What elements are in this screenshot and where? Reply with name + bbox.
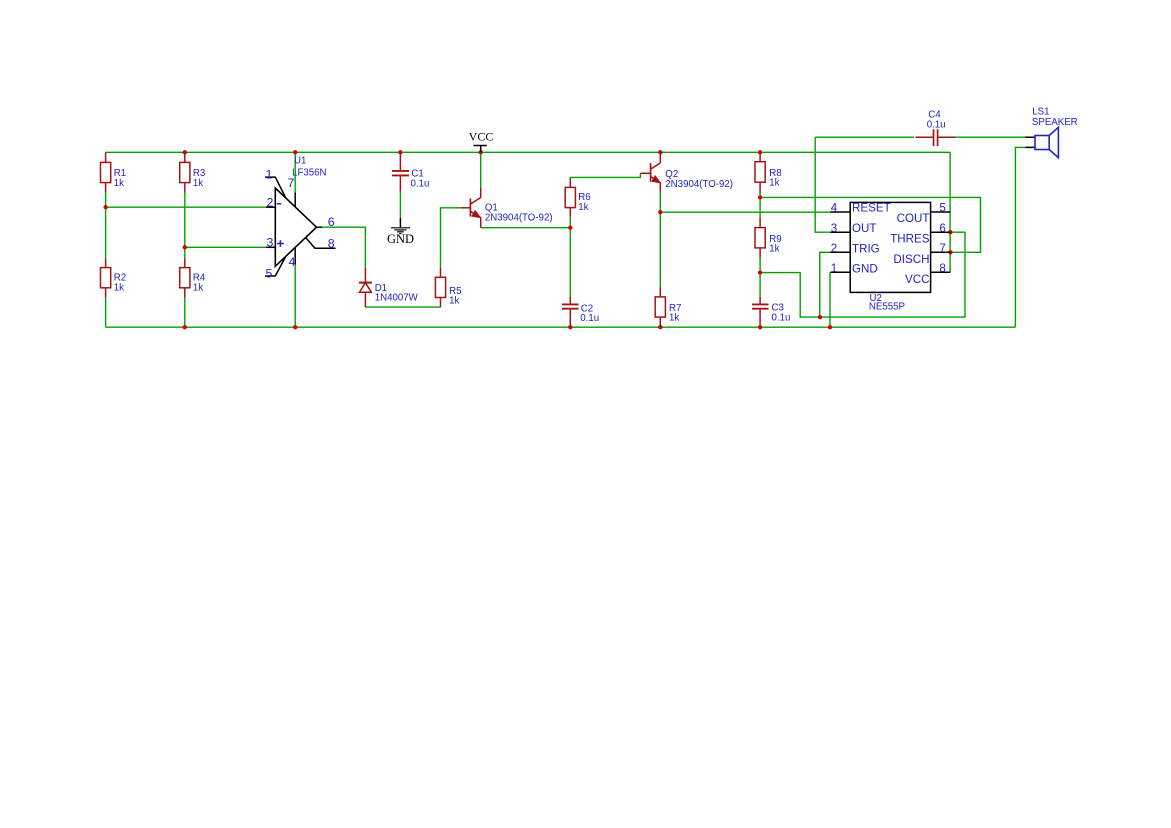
capacitor C2 <box>562 296 579 327</box>
op-amp U1 pin 1 <box>265 177 286 198</box>
U2 pin 8 stub <box>931 271 951 273</box>
node pin6 <box>948 230 952 234</box>
U2 pin 6 stub <box>931 231 951 233</box>
label R3 <box>193 168 205 189</box>
wire D1 to R5 <box>365 306 440 308</box>
node rail C2 <box>568 325 572 329</box>
U2 pin 5 stub <box>931 211 951 213</box>
resistor R9 <box>755 218 765 258</box>
svg-text:8: 8 <box>939 262 945 275</box>
node rail U2 GND <box>828 325 832 329</box>
op-amp minus sign <box>277 203 282 205</box>
wire rail to U2 pins 5-8 <box>949 152 951 272</box>
node rail Q2 collector <box>658 150 662 154</box>
op-amp U1 pin 6 stub <box>317 226 323 228</box>
svg-text:VCC: VCC <box>469 130 494 144</box>
wire ground bottom rail <box>106 326 1016 328</box>
svg-text:1: 1 <box>831 262 837 275</box>
wire U1 pin 7 to rail <box>294 152 296 192</box>
svg-text:2N3904(TO-92): 2N3904(TO-92) <box>665 179 733 190</box>
wire C4 to speaker <box>955 136 1025 138</box>
diode D1 <box>359 268 372 307</box>
wire R3 to R4 <box>184 193 186 259</box>
svg-text:0.1u: 0.1u <box>411 178 430 189</box>
resistor R2 <box>101 258 111 298</box>
wire U2 THRES pin 6 to R9/C3 node <box>760 232 965 317</box>
svg-text:1k: 1k <box>193 282 203 293</box>
svg-text:1k: 1k <box>114 282 124 293</box>
svg-text:LS1: LS1 <box>1032 106 1049 117</box>
label D1 <box>375 283 419 304</box>
svg-text:6: 6 <box>939 222 945 235</box>
VCC power symbol <box>474 146 487 153</box>
op-amp U1 pin 4 <box>294 248 296 265</box>
wire C4 to U2 OUT pin 3 <box>815 137 830 232</box>
label R8 <box>769 168 781 188</box>
svg-text:NE555P: NE555P <box>869 301 905 312</box>
svg-text:SPEAKER: SPEAKER <box>1032 117 1078 128</box>
wire U1 pin 6 to D1 <box>321 227 365 268</box>
wire C4 left lead <box>815 136 914 138</box>
label R6 <box>578 192 590 213</box>
svg-text:COUT: COUT <box>897 212 930 225</box>
resistor R4 <box>180 258 190 298</box>
label U1 <box>292 156 326 179</box>
wire U2 GND pin 1 to rail <box>829 272 831 327</box>
node rail R3 <box>183 150 187 154</box>
svg-text:LF356N: LF356N <box>292 167 326 178</box>
node Q2 emitter <box>658 210 662 214</box>
op-amp U1 pin 2 stub <box>266 206 275 208</box>
capacitor C1 <box>392 152 409 192</box>
capacitor C3 <box>752 296 769 327</box>
svg-text:4: 4 <box>831 202 838 215</box>
wire Q2 emitter to R7 <box>659 192 661 288</box>
wire R8 bottom <box>759 193 761 197</box>
svg-text:1N4007W: 1N4007W <box>375 293 419 304</box>
wire U1 pin 4 to rail <box>294 265 296 328</box>
svg-text:7: 7 <box>288 176 295 190</box>
node rail R8 <box>758 150 762 154</box>
node R9/C3 <box>758 270 762 274</box>
wire speaker bottom riser <box>1015 147 1025 327</box>
svg-text:GND: GND <box>852 263 878 276</box>
wire U2 TRIG pin 2 to THRES net <box>820 252 831 317</box>
label C2 <box>580 304 599 325</box>
node rail R7 <box>658 325 662 329</box>
label R9 <box>769 234 781 254</box>
svg-text:GND: GND <box>387 232 414 246</box>
node rail U1 pin4 <box>293 325 297 329</box>
svg-text:0.1u: 0.1u <box>927 120 946 131</box>
label U2 <box>869 293 905 312</box>
op-amp plus sign <box>277 240 284 247</box>
U2 pin 2 stub <box>830 251 850 253</box>
transistor Q2 <box>640 152 660 191</box>
label C4 <box>927 110 946 131</box>
svg-text:4: 4 <box>289 255 296 269</box>
svg-text:U1: U1 <box>294 156 306 167</box>
op-amp U1 pin 3 stub <box>266 246 275 248</box>
svg-text:1k: 1k <box>193 178 203 189</box>
svg-text:6: 6 <box>328 215 335 229</box>
svg-text:1k: 1k <box>669 313 679 324</box>
node pin7 <box>948 250 952 254</box>
wire node R3/R4 to op-amp pin 3 <box>185 246 266 248</box>
IC U2 NE555P box <box>850 202 930 292</box>
svg-text:1k: 1k <box>578 202 588 213</box>
wire R8/R9 link <box>759 197 761 218</box>
node R8/R9 <box>758 195 762 199</box>
U2 pin 1 stub <box>830 271 850 273</box>
op-amp U1 pin 8 <box>306 238 336 249</box>
label LS1 <box>1032 106 1078 128</box>
wire R6 bottom <box>569 217 571 228</box>
svg-text:5: 5 <box>939 202 945 215</box>
speaker LS1 pin stubs <box>1025 137 1035 147</box>
svg-text:1k: 1k <box>769 243 779 254</box>
svg-text:1k: 1k <box>449 296 459 307</box>
resistor R3 <box>180 152 190 192</box>
capacitor C4 <box>915 129 955 146</box>
resistor R8 <box>755 152 765 193</box>
svg-text:3: 3 <box>831 222 837 235</box>
svg-text:RESET: RESET <box>852 202 891 215</box>
svg-text:5: 5 <box>266 266 273 280</box>
transistor Q1 <box>461 188 481 228</box>
svg-text:2N3904(TO-92): 2N3904(TO-92) <box>485 213 553 224</box>
resistor R1 <box>101 152 111 192</box>
svg-text:0.1u: 0.1u <box>772 312 791 323</box>
label R2 <box>114 272 126 293</box>
op-amp U1 pin 5 <box>265 256 286 276</box>
svg-text:TRIG: TRIG <box>852 243 880 256</box>
svg-text:0.1u: 0.1u <box>580 313 599 324</box>
svg-text:VCC: VCC <box>905 273 929 286</box>
ground symbol <box>391 218 410 234</box>
op-amp U1 triangle <box>275 188 316 266</box>
wire Q1 emitter to R6/C2 node <box>481 227 571 229</box>
node rail C1 <box>398 150 402 154</box>
svg-text:8: 8 <box>328 237 335 251</box>
node rail C3 <box>758 325 762 329</box>
label C1 <box>411 169 430 190</box>
speaker LS1 symbol <box>1035 127 1058 157</box>
wire Q1 collector to rail <box>480 152 482 188</box>
wire node R1/R2 to op-amp pin 2 <box>106 206 266 208</box>
op-amp U1 pin 7 <box>294 193 296 208</box>
label R1 <box>114 168 126 189</box>
U2 pin 7 stub <box>931 251 951 253</box>
label C3 <box>772 303 791 324</box>
label R5 <box>449 286 461 307</box>
resistor R7 <box>655 287 665 327</box>
node TRIG/THRES <box>818 315 822 319</box>
svg-text:1k: 1k <box>769 177 779 188</box>
wire R9 bottom <box>759 258 761 273</box>
node rail U1 pin7 <box>293 150 297 154</box>
wire R2 to rail <box>105 298 107 328</box>
wire R6 to Q2 base <box>570 173 640 178</box>
label R4 <box>193 272 206 293</box>
label Q2 <box>665 169 733 190</box>
wire R8/R9 node to U2 DISCH pin 7 <box>760 197 980 252</box>
wire node to C2 <box>569 228 571 297</box>
label R7 <box>669 303 681 323</box>
U2 pin 4 stub <box>830 211 850 213</box>
svg-text:7: 7 <box>939 242 945 255</box>
wire R4 to rail <box>184 298 186 328</box>
node rail VCC <box>479 150 483 154</box>
svg-text:OUT: OUT <box>852 222 876 235</box>
node R6/C2 emitter <box>568 226 572 230</box>
resistor R6 <box>565 178 575 216</box>
svg-text:1: 1 <box>266 168 273 182</box>
svg-text:2: 2 <box>831 242 837 255</box>
wire VCC top rail <box>106 151 951 153</box>
svg-text:2: 2 <box>267 196 274 210</box>
node R1/R2 <box>103 205 107 209</box>
wire R1 to R2 <box>105 193 107 259</box>
label Q1 <box>485 202 553 223</box>
wire Q2 emitter to U2 RESET pin 4 <box>660 211 830 213</box>
svg-text:1k: 1k <box>114 178 124 189</box>
node R3/R4 <box>183 245 187 249</box>
U2 pin 3 stub <box>830 231 850 233</box>
node rail R4 <box>183 325 187 329</box>
resistor R5 <box>435 268 445 307</box>
svg-text:3: 3 <box>267 236 274 250</box>
wire node to C3 <box>759 273 761 297</box>
wire C1 to GND symbol <box>399 192 401 218</box>
svg-text:DISCH: DISCH <box>893 253 929 266</box>
svg-text:THRES: THRES <box>890 232 930 245</box>
wire R5 to Q1 base <box>441 208 461 268</box>
